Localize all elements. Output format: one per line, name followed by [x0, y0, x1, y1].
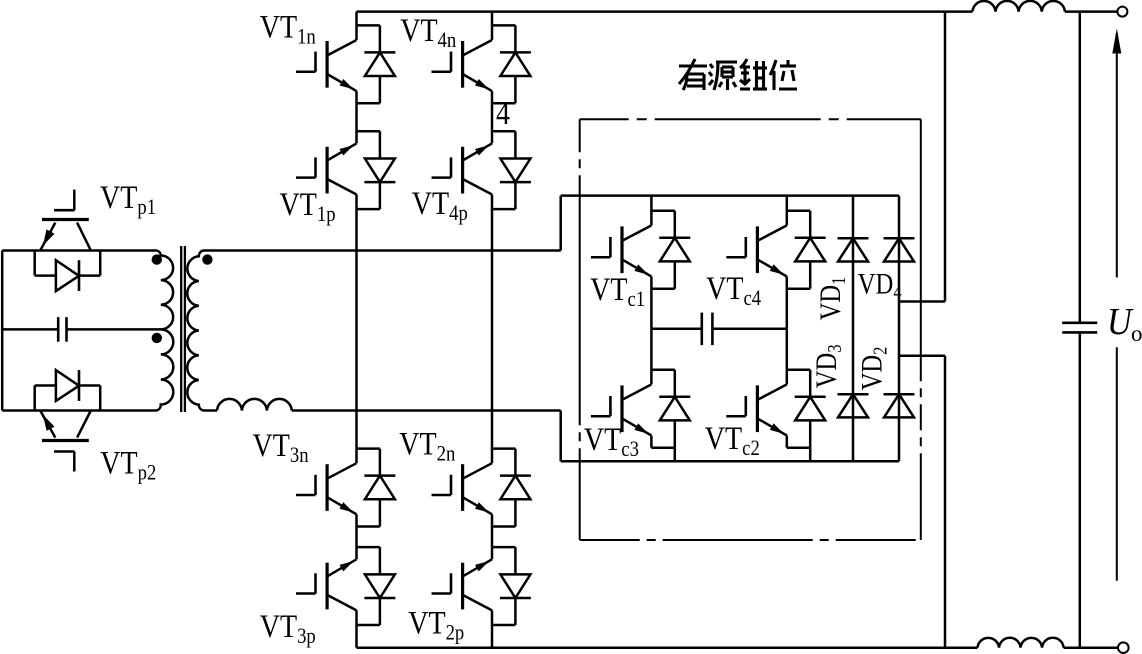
inductor L2 (bottom output filter): [978, 638, 1064, 648]
transformer core: [181, 246, 185, 412]
inductor L1 (top output filter): [972, 1, 1065, 12]
svg-text:VTc1: VTc1: [590, 271, 645, 311]
svg-text:VT4p: VT4p: [412, 185, 468, 225]
capacitor Co (output): [1062, 12, 1097, 648]
diode VD1: [838, 238, 869, 261]
wire: primary centre tap: [2, 328, 58, 331]
svg-text:VTc2: VTc2: [705, 420, 760, 460]
inductor Ls (leakage): [217, 399, 292, 411]
wire: bottom rail to terminal: [1064, 646, 1118, 649]
svg-text:VT2p: VT2p: [408, 604, 464, 644]
transistor VTc2 with anti-parallel diode: [726, 370, 825, 448]
transistor VT4p with anti-parallel diode: [432, 131, 531, 209]
terminal (top right): [1117, 7, 1127, 17]
terminal (bottom right): [1118, 642, 1129, 653]
svg-text:VT3n: VT3n: [253, 427, 309, 467]
wire: rectifier column VD4/VD2: [898, 196, 901, 462]
diode VD4: [884, 238, 915, 261]
transformer secondary winding: [187, 251, 203, 411]
transistor VT4n with anti-parallel diode: [432, 25, 531, 103]
svg-text:VTp1: VTp1: [100, 179, 156, 219]
svg-text:VT2n: VT2n: [399, 425, 455, 465]
polarity dot (secondary): [202, 254, 212, 264]
wire: output negative bottom rail: [357, 646, 978, 649]
polarity dot (primary lower): [152, 333, 162, 343]
polarity dot (primary upper): [152, 254, 162, 264]
wire: clamp top rail: [561, 194, 899, 197]
wire: primary bottom lead: [2, 409, 157, 412]
diode VD3: [838, 394, 869, 417]
svg-text:VT4n: VT4n: [400, 12, 456, 52]
wire: clamp leg 1 column: [650, 196, 653, 226]
capacitor C1 (voltage divider): [58, 317, 66, 342]
transformer T primary winding (lower): [157, 329, 173, 410]
svg-text:VD4: VD4: [858, 267, 902, 303]
transistor VT3p with anti-parallel diode: [296, 547, 395, 625]
wire: clamp output to top rail: [899, 300, 945, 303]
transistor VT1n with anti-parallel diode: [296, 25, 395, 103]
wire: left rail: [1, 251, 4, 411]
wire: secondary bottom lead to clamp: [292, 409, 561, 412]
transistor VT3n with anti-parallel diode: [296, 449, 395, 527]
svg-text:VT3p: VT3p: [260, 608, 316, 648]
wire: clamp leg 2 column: [786, 196, 789, 226]
svg-text:VTc4: VTc4: [706, 270, 761, 310]
transistor VTc1 with anti-parallel diode: [591, 211, 690, 289]
transistor VTc3 with anti-parallel diode: [591, 370, 690, 448]
svg-text:VD2: VD2: [855, 347, 891, 391]
svg-text:VT1n: VT1n: [260, 8, 316, 48]
transistor VTp2: [41, 411, 91, 472]
wire: transformer secondary top lead to clamp: [203, 249, 561, 252]
diode VD2: [884, 394, 915, 417]
transistor VT1p with anti-parallel diode: [296, 131, 395, 209]
wire: output positive top rail: [357, 10, 973, 13]
wire: clamp bottom rail: [561, 460, 899, 463]
wire: bridge column 1 (legs VT1/VT3): [355, 12, 358, 40]
transistor VT2n with anti-parallel diode: [432, 449, 531, 527]
clamp dash-dot boundary box: [580, 119, 921, 540]
svg-text:VTp2: VTp2: [100, 444, 156, 484]
transistor VT2p with anti-parallel diode: [432, 547, 531, 625]
transformer T primary winding (upper): [157, 251, 173, 330]
svg-text:VD3: VD3: [810, 344, 846, 388]
node Uo: output voltage arrow: [1112, 29, 1121, 581]
wire: rectifier column VD1/VD3: [852, 196, 855, 462]
transistor VTp1: [41, 190, 91, 250]
wire: bridge column 2 (legs VT4/VT2): [491, 12, 494, 40]
svg-text:VTc3: VTc3: [584, 421, 639, 461]
wire: primary top lead: [2, 249, 157, 252]
transistor VTc4 with anti-parallel diode: [726, 211, 825, 289]
diode (VTp1 anti-parallel): [35, 251, 101, 292]
wire: transformer secondary bottom lead: [203, 409, 217, 412]
svg-text:VD1: VD1: [814, 277, 850, 321]
svg-text:4: 4: [496, 95, 510, 132]
svg-text:o: o: [1131, 321, 1142, 346]
capacitor Cc (clamp): [651, 313, 786, 346]
wire: clamp output to bottom rail: [899, 355, 945, 358]
label caption 有源钳位 (active clamp): [679, 59, 797, 90]
diode (VTp2 anti-parallel): [35, 370, 101, 410]
wire: top rail to terminal: [1065, 10, 1118, 13]
